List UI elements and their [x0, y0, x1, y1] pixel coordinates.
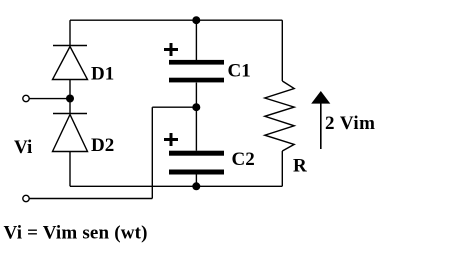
wire riser vertical [151, 107, 153, 198]
wire D2 anode down [69, 152, 71, 187]
svg-text:2 Vim: 2 Vim [325, 113, 375, 134]
resistor R zigzag [265, 81, 294, 151]
svg-text:Vi: Vi [14, 137, 32, 158]
terminal Vi top [23, 95, 29, 101]
wire right vertical bottom [281, 151, 283, 186]
arrow 2 Vim [311, 91, 330, 149]
svg-text:D2: D2 [91, 135, 114, 156]
capacitor C1 [169, 60, 224, 82]
wire terminal bottom to riser [30, 198, 153, 200]
node bottom junction [192, 182, 200, 190]
svg-text:C2: C2 [232, 149, 255, 170]
svg-text:D1: D1 [91, 64, 114, 85]
capacitor C2 [169, 151, 224, 175]
diode D1 [53, 46, 88, 80]
diode D2 [53, 114, 88, 152]
wire riser to mid junction [152, 106, 196, 108]
wire right vertical top [281, 20, 283, 81]
node mid junction [192, 103, 200, 111]
node top junction [192, 16, 200, 24]
wire C2 to bottom node [195, 175, 197, 187]
wire mid junction to C2 [195, 107, 197, 151]
node left junction [66, 95, 74, 103]
plus sign C2 [164, 133, 178, 146]
wire D1 anode down to D2 [69, 80, 71, 114]
plus sign C1 [164, 43, 178, 56]
svg-text:R: R [293, 155, 307, 176]
svg-text:Vi = Vim sen (wt): Vi = Vim sen (wt) [4, 223, 148, 244]
terminal Vi bottom [23, 195, 29, 201]
svg-text:C1: C1 [228, 61, 251, 82]
wire left vertical into D1 [69, 20, 71, 45]
wire top horizontal [70, 19, 282, 21]
wire bottom horizontal [70, 185, 282, 187]
wire top node to C1 [195, 20, 197, 61]
wire C1 to mid junction [195, 83, 197, 108]
wire terminal top to node [30, 98, 71, 100]
